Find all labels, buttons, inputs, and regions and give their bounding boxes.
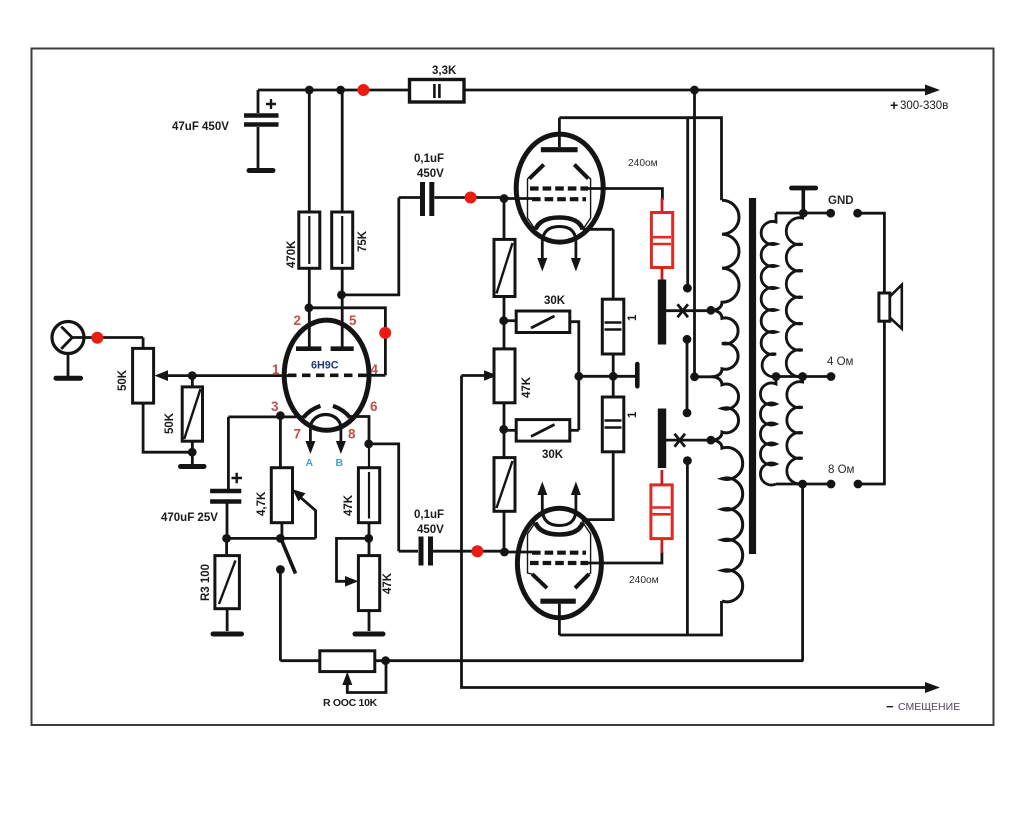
cathode cup bbox=[535, 523, 583, 535]
capacitor 470uF 25V bbox=[161, 473, 242, 539]
svg-text:50K: 50K bbox=[164, 412, 176, 434]
heater arch bbox=[542, 227, 576, 242]
splitter chain vertical bbox=[503, 198, 506, 553]
wire pin4 stub bbox=[364, 374, 385, 377]
resistor R 3,3K bbox=[410, 65, 465, 102]
wire anode1 to grid2 link bbox=[309, 308, 386, 376]
resistor 47K lower adjustable bbox=[337, 538, 395, 631]
svg-text:B: B bbox=[336, 457, 344, 469]
heater arrows bbox=[541, 241, 544, 259]
wire pin6 to lower coupling cap bbox=[369, 444, 399, 551]
svg-text:47K: 47K bbox=[382, 572, 394, 594]
tube 6N9S heater arch bbox=[310, 415, 341, 429]
svg-text:240ом: 240ом bbox=[629, 575, 659, 586]
svg-text:30K: 30K bbox=[544, 295, 566, 307]
svg-text:470K: 470K bbox=[286, 240, 298, 268]
wire feedback bbox=[375, 659, 803, 662]
svg-text:47K: 47K bbox=[521, 376, 533, 398]
tube output lower envelope bbox=[517, 482, 601, 636]
svg-text:8 Ом: 8 Ом bbox=[828, 464, 855, 476]
ground under 47K bbox=[355, 632, 383, 637]
wire B+ feed vertical bbox=[695, 90, 712, 377]
cathode dome bbox=[536, 218, 583, 230]
wire lower screen to 240ohm bbox=[587, 552, 662, 563]
svg-text:50K: 50K bbox=[117, 369, 129, 391]
svg-text:3,3K: 3,3K bbox=[432, 65, 457, 77]
capacitor 0,1uF 450V lower bbox=[399, 509, 504, 566]
speaker wires bbox=[858, 213, 885, 293]
node B+ rail arrow bbox=[925, 85, 940, 96]
wire pin3 cathode bbox=[228, 416, 304, 468]
terminal bar bbox=[635, 364, 640, 386]
input jack bbox=[52, 322, 143, 379]
wire anode top link bbox=[559, 118, 721, 201]
tube 6N9S anode plates bbox=[296, 346, 354, 351]
wire grid1 bbox=[192, 374, 290, 377]
transformer core bbox=[749, 198, 756, 554]
resistor splitter upper (slash) bbox=[494, 239, 515, 296]
transformer primary winding bbox=[711, 200, 743, 602]
wire lower control grid bbox=[504, 551, 532, 554]
heater pin7 arrow A bbox=[309, 429, 312, 443]
capacitor C1 47uF 450V bbox=[172, 90, 279, 168]
wire cathode junction to 1-resistors bbox=[579, 375, 635, 378]
svg-text:−: − bbox=[886, 699, 894, 714]
svg-text:30K: 30K bbox=[542, 449, 564, 461]
svg-text:300-330в: 300-330в bbox=[900, 100, 948, 112]
red node dots bbox=[91, 84, 483, 557]
svg-text:47uF 450V: 47uF 450V bbox=[172, 121, 229, 133]
tube 6N9S cathode arcs bbox=[303, 406, 320, 418]
wire 75K bottom to coupling cap branch bbox=[342, 198, 399, 295]
tube 6N9S grid dashed bbox=[288, 373, 366, 377]
anode bar bbox=[540, 599, 575, 604]
resistor splitter lower (slash) bbox=[494, 458, 515, 512]
resistor 470K bbox=[286, 90, 320, 348]
wire B+ top rail bbox=[258, 89, 927, 92]
resistor R3 100 bbox=[200, 538, 239, 631]
resistor 1 upper bbox=[602, 229, 639, 397]
potentiometer R OOC 10K bbox=[280, 651, 386, 709]
tube 6N9S envelope bbox=[284, 320, 369, 430]
beam plates bbox=[529, 165, 588, 179]
svg-text:6H9C: 6H9C bbox=[311, 360, 339, 372]
resistor 50K (grid leak) bbox=[164, 376, 203, 464]
svg-text:A: A bbox=[306, 457, 314, 469]
UL pot bar lower bbox=[658, 409, 666, 469]
svg-text:240ом: 240ом bbox=[628, 158, 658, 169]
svg-text:75K: 75K bbox=[357, 230, 369, 252]
svg-text:0,1uF: 0,1uF bbox=[414, 153, 444, 165]
resistor 240om upper (red) bbox=[651, 198, 672, 281]
svg-text:4,7K: 4,7K bbox=[256, 491, 268, 516]
anode lead down bbox=[558, 604, 561, 635]
secondary brackets bbox=[776, 212, 831, 215]
transformer secondary winding 1 bbox=[761, 213, 776, 377]
svg-text:450V: 450V bbox=[417, 524, 444, 536]
svg-text:2: 2 bbox=[294, 313, 302, 328]
thin beam box bbox=[528, 523, 536, 575]
speaker bbox=[879, 285, 902, 329]
svg-text:47K: 47K bbox=[343, 494, 355, 516]
resistor 240om lower (red) bbox=[651, 470, 672, 553]
border frame bbox=[32, 49, 994, 726]
resistor 30K upper bbox=[504, 295, 579, 430]
chain A verticals bbox=[686, 118, 689, 288]
heater pin8 arrow B bbox=[339, 429, 342, 443]
wire upper cathode to 1-resistor bbox=[583, 228, 613, 231]
resistor 4,7K bbox=[227, 468, 316, 539]
svg-text:470uF 25V: 470uF 25V bbox=[161, 512, 218, 524]
svg-text:5: 5 bbox=[349, 313, 357, 328]
svg-text:R3 100: R3 100 bbox=[200, 564, 212, 601]
switch lever bbox=[282, 540, 296, 574]
chassis bar bbox=[801, 190, 805, 213]
thin beam box bbox=[528, 165, 544, 230]
junction dots black bbox=[188, 86, 863, 666]
resistor 30K lower bbox=[504, 420, 579, 461]
screen grid dashes bbox=[530, 561, 588, 565]
svg-text:7: 7 bbox=[294, 427, 302, 442]
anode lead up bbox=[558, 118, 561, 148]
heater arrows up bbox=[541, 494, 544, 511]
arrow into 47K splitter bbox=[462, 374, 487, 377]
wire lower anode to primary bottom bbox=[559, 601, 721, 635]
UL pot bar upper bbox=[658, 280, 666, 345]
svg-text:+: + bbox=[890, 97, 898, 113]
svg-text:8: 8 bbox=[348, 427, 356, 442]
resistor 1 lower bbox=[583, 397, 640, 522]
svg-text:GND: GND bbox=[828, 195, 854, 207]
beam plates bbox=[532, 574, 589, 588]
ground under 50K bbox=[181, 464, 205, 469]
svg-text:R OOC 10K: R OOC 10K bbox=[323, 697, 378, 709]
svg-text:450V: 450V bbox=[417, 168, 444, 180]
UL wiper upper bbox=[666, 309, 711, 312]
svg-text:4 Ом: 4 Ом bbox=[827, 356, 854, 368]
resistor 47K splitter bbox=[494, 349, 533, 403]
svg-text:3: 3 bbox=[271, 399, 279, 414]
wire upper control grid bbox=[504, 197, 532, 200]
resistor 47K (pin6 load) bbox=[343, 417, 380, 556]
resistor 75K bbox=[332, 90, 369, 348]
wire 8om down to feedback bbox=[801, 484, 804, 661]
svg-text:0,1uF: 0,1uF bbox=[414, 509, 444, 521]
control grid dashes bbox=[532, 551, 586, 555]
wire upper screen to 240ohm bbox=[587, 189, 662, 201]
screen grid dashes bbox=[530, 186, 588, 190]
potentiometer 50K bbox=[117, 338, 192, 453]
wire bias line bbox=[462, 376, 928, 688]
ground under R3 bbox=[213, 632, 242, 637]
svg-text:СМЕЩЕНИЕ: СМЕЩЕНИЕ bbox=[898, 701, 960, 713]
svg-text:1: 1 bbox=[272, 362, 280, 377]
capacitor C2 0,1uF 450V upper bbox=[399, 153, 504, 216]
control grid dashes bbox=[532, 197, 586, 201]
svg-text:1: 1 bbox=[627, 411, 639, 418]
transformer secondary winding 2 bbox=[786, 213, 802, 376]
svg-text:6: 6 bbox=[370, 399, 378, 414]
UL wiper lower bbox=[666, 439, 711, 442]
svg-text:4: 4 bbox=[371, 362, 379, 377]
tube output upper envelope bbox=[516, 118, 603, 272]
anode bar bbox=[541, 147, 578, 152]
ground under C1 bbox=[249, 168, 273, 173]
heater arch bbox=[542, 511, 576, 526]
svg-text:1: 1 bbox=[627, 314, 639, 321]
